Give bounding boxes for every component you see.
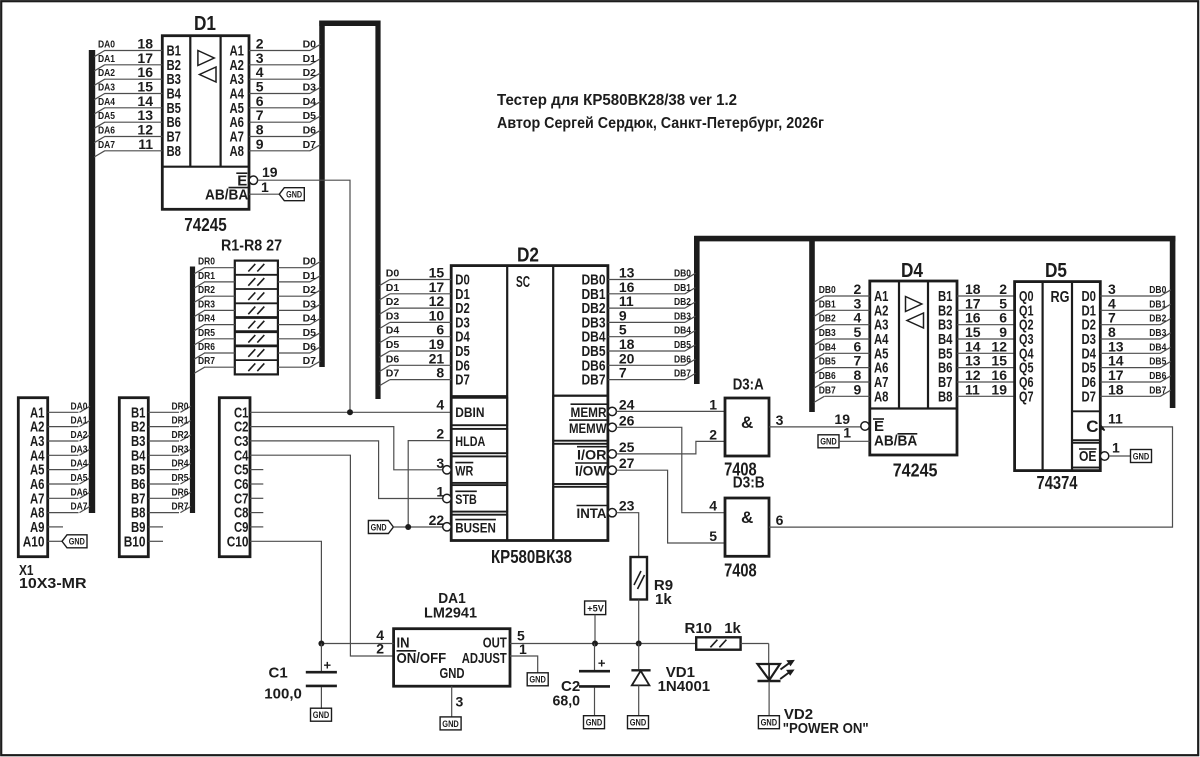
svg-text:D0: D0 xyxy=(303,256,317,268)
svg-text:AB/BA: AB/BA xyxy=(874,433,917,450)
svg-text:26: 26 xyxy=(619,412,635,428)
svg-text:I/OR: I/OR xyxy=(577,446,607,462)
net labels D0-D7 at D2 inputs xyxy=(386,268,400,380)
R1-R8 label xyxy=(221,238,282,255)
power label +5V xyxy=(585,601,606,644)
wire MEMR to D3:A pin1 xyxy=(616,410,725,412)
svg-text:I/OW: I/OW xyxy=(575,463,607,479)
svg-text:D2: D2 xyxy=(517,245,539,267)
svg-text:2: 2 xyxy=(709,426,717,442)
wire C4 to DA1 ON/OFF xyxy=(250,455,394,656)
ground rect at C1 xyxy=(311,708,332,721)
svg-text:19: 19 xyxy=(262,164,278,180)
svg-text:DB2: DB2 xyxy=(1149,313,1166,325)
svg-text:DR1: DR1 xyxy=(198,270,215,282)
svg-text:D6: D6 xyxy=(303,125,317,137)
svg-text:1k: 1k xyxy=(724,620,741,637)
svg-text:DA4: DA4 xyxy=(71,458,88,470)
svg-text:D3: D3 xyxy=(303,298,317,310)
svg-text:18: 18 xyxy=(1108,381,1124,397)
svg-text:GND: GND xyxy=(371,522,387,533)
net labels DB0-DB7 at D5 xyxy=(1149,284,1166,396)
D1 value 74245 xyxy=(184,215,226,235)
wire C2 to D2 WR xyxy=(250,427,443,470)
svg-text:+: + xyxy=(324,658,332,673)
svg-text:D5: D5 xyxy=(1045,260,1067,282)
svg-text:+: + xyxy=(598,656,606,671)
svg-text:D7: D7 xyxy=(386,368,400,380)
svg-text:DA6: DA6 xyxy=(98,125,115,137)
svg-text:7: 7 xyxy=(619,365,627,381)
svg-text:ADJUST: ADJUST xyxy=(462,650,507,667)
svg-text:DR0: DR0 xyxy=(172,400,189,412)
svg-text:D2: D2 xyxy=(386,296,400,308)
svg-text:74374: 74374 xyxy=(1037,473,1078,493)
svg-text:D2: D2 xyxy=(303,67,317,79)
svg-text:DB3: DB3 xyxy=(674,310,691,322)
svg-text:9: 9 xyxy=(854,381,862,397)
svg-text:DR7: DR7 xyxy=(172,501,189,513)
net labels DA0-DA7 at X1 A xyxy=(71,400,88,512)
svg-text:D4: D4 xyxy=(303,96,317,108)
svg-text:DB5: DB5 xyxy=(674,339,691,351)
ground rect at DA1 pin3 xyxy=(440,717,461,730)
svg-text:D1: D1 xyxy=(303,53,317,65)
C1 value 100,0 xyxy=(264,686,302,703)
svg-text:DA1: DA1 xyxy=(98,53,115,65)
svg-text:DB6: DB6 xyxy=(1149,370,1166,382)
svg-text:DB1: DB1 xyxy=(674,282,691,294)
capacitor C2 68,0 xyxy=(579,644,610,716)
svg-text:9: 9 xyxy=(256,136,264,152)
C1 designator xyxy=(269,665,288,682)
wire C3 to D2 STB xyxy=(250,441,443,499)
svg-text:HLDA: HLDA xyxy=(455,433,485,449)
net labels DA0-DA7 at D1 xyxy=(98,39,115,151)
svg-text:1: 1 xyxy=(709,396,717,412)
bus DR (vertical) xyxy=(190,267,195,514)
svg-text:MEMW: MEMW xyxy=(569,420,607,436)
svg-text:D7: D7 xyxy=(303,139,317,151)
svg-text:INTA: INTA xyxy=(577,505,607,521)
wire HLDA to ground net xyxy=(408,441,451,527)
svg-text:D1: D1 xyxy=(303,270,317,282)
bus D right bar xyxy=(375,21,380,400)
title text xyxy=(497,92,824,132)
svg-text:RG: RG xyxy=(1051,289,1070,306)
bus DB bar at D4 xyxy=(809,236,815,412)
svg-text:D6: D6 xyxy=(386,353,400,365)
bus D top bar xyxy=(319,20,380,26)
svg-text:DR1: DR1 xyxy=(172,415,189,427)
svg-text:DB7: DB7 xyxy=(674,368,691,380)
svg-text:D4: D4 xyxy=(303,313,317,325)
D1 designator xyxy=(194,13,216,35)
bus DB bar at D5 xyxy=(1170,236,1176,408)
wire I/OW to D3:B pin5 xyxy=(616,470,725,543)
C2 designator xyxy=(561,678,580,695)
svg-text:10X3-MR: 10X3-MR xyxy=(19,575,87,592)
D3:A value 7408 xyxy=(724,460,757,480)
D3:B value 7408 xyxy=(724,561,757,581)
svg-text:BUSEN: BUSEN xyxy=(455,519,496,535)
svg-text:&: & xyxy=(741,413,753,432)
svg-text:GND: GND xyxy=(313,710,330,721)
svg-text:DR2: DR2 xyxy=(198,284,215,296)
svg-text:11: 11 xyxy=(138,136,153,152)
gate D3:B 7408 AND xyxy=(709,498,783,557)
wire rail DA1 IN xyxy=(321,643,393,645)
svg-text:DBIN: DBIN xyxy=(455,404,484,420)
svg-text:24: 24 xyxy=(619,396,635,412)
svg-text:D1: D1 xyxy=(386,282,400,294)
wire D3:A pin3 to D4 E xyxy=(769,426,861,428)
svg-text:5: 5 xyxy=(709,528,717,544)
bus DA (left vertical) xyxy=(89,50,95,513)
ground rect at VD2 xyxy=(758,716,779,729)
R10 designator xyxy=(685,620,713,637)
ground flag at X1 A10 xyxy=(62,535,87,548)
svg-text:DA3: DA3 xyxy=(98,82,115,94)
svg-text:DB4: DB4 xyxy=(674,325,691,337)
svg-text:A8: A8 xyxy=(874,388,889,405)
svg-text:DB0: DB0 xyxy=(1149,284,1166,296)
junction node R9/VD1 xyxy=(636,641,642,647)
svg-text:DR6: DR6 xyxy=(172,486,189,498)
wire C10 to DA1 IN xyxy=(250,541,321,643)
svg-text:A10: A10 xyxy=(23,533,45,550)
svg-text:LM2941: LM2941 xyxy=(424,605,477,622)
svg-text:GND: GND xyxy=(286,190,302,201)
VD2 designator xyxy=(784,706,813,723)
IC D4 74245 buffer xyxy=(814,281,1015,455)
wire rail +5V out xyxy=(510,643,696,645)
svg-text:GND: GND xyxy=(820,437,837,448)
resistor R10 1k xyxy=(696,637,769,664)
svg-text:B8: B8 xyxy=(167,143,182,160)
diode VD1 1N4001 xyxy=(631,644,650,716)
svg-text:GND: GND xyxy=(442,719,459,730)
svg-text:D5: D5 xyxy=(303,327,317,339)
ground flag at D1 AB/BA xyxy=(249,188,304,201)
svg-text:74245: 74245 xyxy=(893,461,938,481)
svg-text:D2: D2 xyxy=(303,284,317,296)
junction node C1 xyxy=(318,641,324,647)
svg-text:C1: C1 xyxy=(269,665,288,682)
svg-text:Автор Сергей Сердюк, Санкт-Пет: Автор Сергей Сердюк, Санкт-Петербург, 20… xyxy=(497,115,824,132)
svg-text:GND: GND xyxy=(586,718,603,729)
net labels D0-D7 at R1-R8 outputs xyxy=(303,256,317,368)
D2 value KR580VK38 xyxy=(491,547,572,567)
VD1 designator xyxy=(666,664,695,681)
svg-text:D0: D0 xyxy=(303,39,317,51)
svg-text:DR3: DR3 xyxy=(198,298,215,310)
svg-text:DA0: DA0 xyxy=(98,39,115,51)
IC DA1 LM2941 regulator xyxy=(376,627,527,710)
wire INTA to R9 xyxy=(616,513,638,557)
DA1 designator xyxy=(438,590,466,607)
svg-text:DB5: DB5 xyxy=(819,356,836,368)
svg-text:DB2: DB2 xyxy=(674,296,691,308)
wire D1 pin19 E to DBIN node xyxy=(258,180,350,412)
net labels D0-D7 from D1 outputs xyxy=(303,39,317,151)
svg-text:D0: D0 xyxy=(386,268,400,280)
svg-text:27: 27 xyxy=(619,455,635,471)
svg-text:DR2: DR2 xyxy=(172,429,189,441)
svg-text:A8: A8 xyxy=(230,143,245,160)
svg-text:11: 11 xyxy=(965,381,980,397)
svg-text:B10: B10 xyxy=(124,533,146,550)
svg-text:C: C xyxy=(1086,417,1098,436)
wire DA1 pin3 to ground xyxy=(451,686,453,717)
D3:A designator xyxy=(733,377,764,394)
wire MEMW to D3:B pin4 xyxy=(616,427,725,512)
R10 value 1k xyxy=(724,620,741,637)
svg-text:DB1: DB1 xyxy=(819,298,836,310)
svg-text:DR5: DR5 xyxy=(172,472,189,484)
X1 designator xyxy=(19,562,34,579)
svg-text:GND: GND xyxy=(630,718,647,729)
svg-text:DB7: DB7 xyxy=(1149,384,1166,396)
svg-text:1: 1 xyxy=(843,425,851,441)
svg-text:Тестер для КР580ВК28/38 ver 1.: Тестер для КР580ВК28/38 ver 1.2 xyxy=(497,92,737,109)
svg-text:DB3: DB3 xyxy=(1149,327,1166,339)
svg-text:3: 3 xyxy=(456,694,464,710)
svg-text:DA7: DA7 xyxy=(98,139,115,151)
svg-text:D4: D4 xyxy=(901,260,924,282)
svg-text:DB7: DB7 xyxy=(819,384,836,396)
D4 designator xyxy=(901,260,924,282)
bus D left bar xyxy=(319,21,325,368)
svg-text:DB0: DB0 xyxy=(819,284,836,296)
R9 designator xyxy=(654,577,673,594)
svg-text:22: 22 xyxy=(429,512,445,528)
ground rect at D4 AB/BA xyxy=(818,435,870,448)
svg-text:DA5: DA5 xyxy=(98,110,115,122)
svg-text:2: 2 xyxy=(436,426,444,442)
bus DB bar at D2 xyxy=(694,236,700,384)
svg-text:D6: D6 xyxy=(303,341,317,353)
wire I/OR to D3:A pin2 xyxy=(616,441,725,454)
wire D3:B pin6 to D5 C xyxy=(769,427,1173,527)
resistor network R1-R8 27 xyxy=(194,261,320,375)
svg-text:DA7: DA7 xyxy=(71,501,88,513)
svg-text:GND: GND xyxy=(529,675,546,686)
svg-text:D3: D3 xyxy=(303,82,317,94)
svg-text:DB1: DB1 xyxy=(1149,298,1166,310)
bus DB top bar xyxy=(694,236,1175,242)
svg-text:8: 8 xyxy=(436,365,444,381)
ground rect at C2 xyxy=(584,716,605,729)
net labels DB0-DB7 at D2 outputs xyxy=(674,268,691,380)
svg-text:GND: GND xyxy=(761,718,778,729)
svg-text:25: 25 xyxy=(619,439,635,455)
ground flag at D2 BUSEN xyxy=(368,521,442,534)
svg-text:3: 3 xyxy=(776,412,784,428)
svg-text:&: & xyxy=(741,508,753,527)
svg-text:DB7: DB7 xyxy=(582,372,606,389)
resistor R9 1k xyxy=(631,557,648,644)
svg-text:7408: 7408 xyxy=(724,561,757,581)
svg-text:4: 4 xyxy=(436,397,444,413)
svg-text:D4: D4 xyxy=(386,325,400,337)
svg-text:Q7: Q7 xyxy=(1019,388,1034,405)
svg-text:DB0: DB0 xyxy=(674,268,691,280)
svg-text:DB6: DB6 xyxy=(674,353,691,365)
svg-text:DA0: DA0 xyxy=(71,400,88,412)
svg-text:D3:A: D3:A xyxy=(733,377,764,394)
wire DA1 ADJUST to ground xyxy=(510,656,538,673)
svg-text:DB3: DB3 xyxy=(819,327,836,339)
svg-text:D5: D5 xyxy=(386,339,400,351)
svg-text:AB/BA: AB/BA xyxy=(205,187,248,204)
svg-text:STB: STB xyxy=(455,491,477,507)
svg-text:74245: 74245 xyxy=(184,215,226,235)
svg-text:OE: OE xyxy=(1079,448,1097,465)
svg-text:D1: D1 xyxy=(194,13,216,35)
D3:B designator xyxy=(733,475,765,492)
svg-text:68,0: 68,0 xyxy=(553,693,581,710)
svg-text:1N4001: 1N4001 xyxy=(658,678,711,695)
svg-text:R10: R10 xyxy=(685,620,713,637)
svg-text:D3:B: D3:B xyxy=(733,475,765,492)
svg-text:DA6: DA6 xyxy=(71,486,88,498)
svg-text:D3: D3 xyxy=(386,310,400,322)
net labels DR0-DR7 at R1-R8 xyxy=(198,256,215,368)
svg-text:DA2: DA2 xyxy=(71,429,88,441)
svg-text:+5V: +5V xyxy=(587,604,604,615)
svg-text:4: 4 xyxy=(709,498,717,514)
svg-text:D5: D5 xyxy=(303,110,317,122)
junction node DBIN xyxy=(347,409,353,415)
svg-text:1: 1 xyxy=(261,179,269,195)
IC D1 74245 buffer xyxy=(94,36,320,210)
X1 value 10X3-MR xyxy=(19,575,87,592)
svg-text:DR4: DR4 xyxy=(172,458,189,470)
svg-text:6: 6 xyxy=(776,512,784,528)
svg-text:DR5: DR5 xyxy=(198,327,215,339)
ground rect at DA1 ADJUST xyxy=(527,673,548,686)
svg-text:DA4: DA4 xyxy=(98,96,115,108)
ground rect at D5 OE xyxy=(1109,450,1152,463)
net labels DB0-DB7 at D4 xyxy=(819,284,836,396)
svg-text:DR0: DR0 xyxy=(198,256,215,268)
svg-text:DR7: DR7 xyxy=(198,355,215,367)
junction node +5V rail xyxy=(592,641,598,647)
svg-text:WR: WR xyxy=(455,462,473,478)
svg-text:DA1: DA1 xyxy=(71,415,88,427)
svg-text:11: 11 xyxy=(1108,410,1123,426)
svg-text:19: 19 xyxy=(991,381,1007,397)
svg-text:DA3: DA3 xyxy=(71,443,88,455)
svg-text:DB4: DB4 xyxy=(1149,341,1166,353)
svg-text:1k: 1k xyxy=(655,591,672,608)
VD1 value 1N4001 xyxy=(658,678,711,695)
svg-text:DA5: DA5 xyxy=(71,472,88,484)
svg-text:B8: B8 xyxy=(938,388,953,405)
svg-text:C10: C10 xyxy=(227,533,249,550)
connector X1 column C xyxy=(219,398,263,557)
capacitor C1 100,0 xyxy=(306,644,337,710)
svg-text:DB5: DB5 xyxy=(1149,356,1166,368)
svg-text:MEMR: MEMR xyxy=(571,404,607,420)
ground rect at VD1 xyxy=(628,716,649,729)
D2 designator xyxy=(517,245,539,267)
svg-text:КР580ВК38: КР580ВК38 xyxy=(491,547,572,567)
svg-text:DA2: DA2 xyxy=(98,67,115,79)
svg-text:23: 23 xyxy=(619,498,635,514)
D5 value 74374 xyxy=(1037,473,1078,493)
svg-text:"POWER ON": "POWER ON" xyxy=(783,720,869,737)
net labels DR0-DR7 at X1 B xyxy=(172,400,189,512)
svg-text:100,0: 100,0 xyxy=(264,686,302,703)
svg-text:D7: D7 xyxy=(303,355,317,367)
connector X1 column B xyxy=(119,398,191,557)
svg-text:GND: GND xyxy=(69,537,85,548)
DA1 value LM2941 xyxy=(424,605,477,622)
svg-text:GND: GND xyxy=(1133,451,1150,462)
svg-text:DR4: DR4 xyxy=(198,313,215,325)
svg-text:D7: D7 xyxy=(1082,388,1097,405)
connector X1 column A xyxy=(18,398,90,557)
wire C1 to D2 DBIN xyxy=(250,411,451,413)
R9 value 1k xyxy=(655,591,672,608)
gate D3:A 7408 AND xyxy=(709,396,783,456)
svg-text:DB6: DB6 xyxy=(819,370,836,382)
VD2 label POWER ON xyxy=(783,720,869,737)
IC D5 74374 register xyxy=(1015,281,1171,471)
svg-text:GND: GND xyxy=(440,665,465,682)
svg-text:SC: SC xyxy=(516,274,530,291)
junction node BUSEN ground xyxy=(405,524,411,530)
svg-text:DB4: DB4 xyxy=(819,341,836,353)
svg-text:1: 1 xyxy=(1112,439,1120,455)
IC D2 KR580VK38 system controller xyxy=(379,265,695,541)
svg-text:DR3: DR3 xyxy=(172,443,189,455)
svg-text:R1-R8 27: R1-R8 27 xyxy=(221,238,282,255)
svg-text:D7: D7 xyxy=(455,372,470,389)
svg-text:DB2: DB2 xyxy=(819,313,836,325)
LED VD2 xyxy=(758,660,795,715)
D4 value 74245 xyxy=(893,461,938,481)
C2 value 68,0 xyxy=(553,693,581,710)
D5 designator xyxy=(1045,260,1067,282)
svg-text:DR6: DR6 xyxy=(198,341,215,353)
